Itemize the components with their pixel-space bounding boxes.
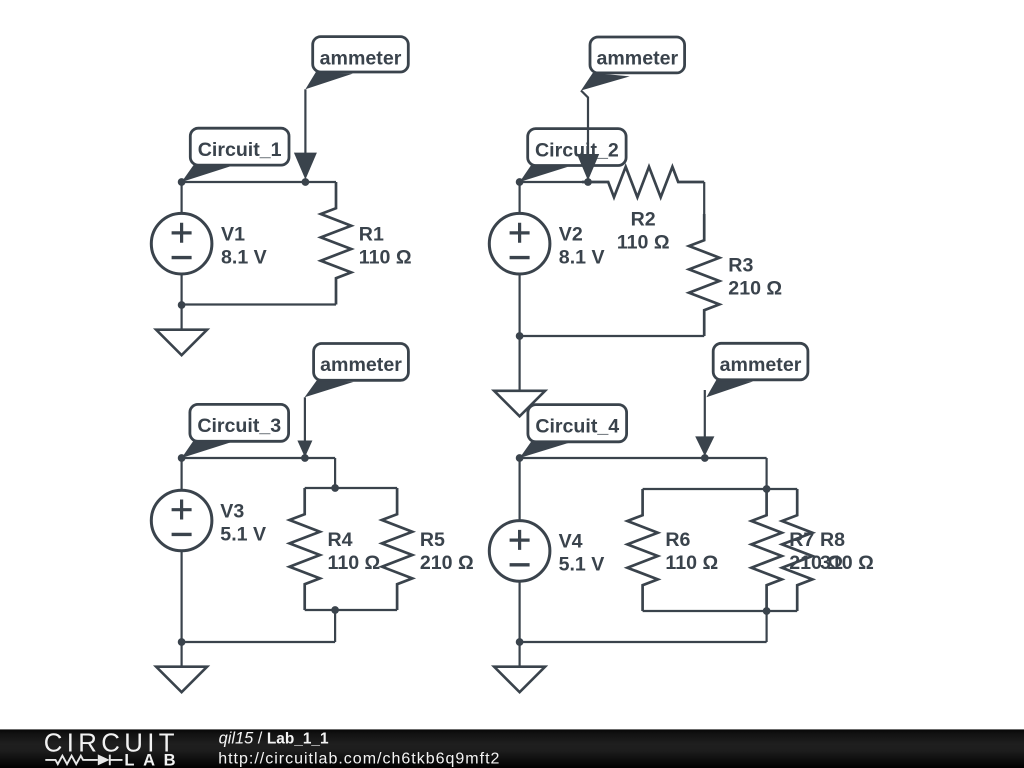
wire C3 bottom [182, 641, 336, 643]
svg-text:ammeter: ammeter [720, 354, 802, 376]
svg-text:ammeter: ammeter [320, 47, 402, 69]
node C2 top-left [516, 178, 524, 186]
CircuitLab logo resistor-diode glyph [45, 755, 122, 766]
svg-text:ammeter: ammeter [596, 48, 678, 70]
svg-text:210 Ω: 210 Ω [420, 552, 474, 574]
wire C2 left bottom lead [518, 274, 520, 336]
node C3 bottom-left [178, 638, 186, 646]
node C4 bottom-left [516, 638, 524, 646]
wire C2 top [520, 181, 582, 183]
wire C4 drop to parallel top bar [765, 458, 767, 489]
voltage source V2 [489, 213, 550, 274]
wire C3 parallel top bar [305, 487, 397, 489]
svg-text:R4: R4 [328, 529, 353, 551]
callout Circuit_2 [520, 129, 627, 182]
node C4 top-left [516, 454, 524, 462]
wire C1 top [182, 181, 336, 183]
wire C4 bottom [520, 641, 767, 643]
svg-text:R2: R2 [631, 209, 656, 231]
wire C4 left top lead [518, 458, 520, 521]
wire C4 top [520, 457, 767, 459]
svg-text:Circuit_3: Circuit_3 [197, 415, 281, 437]
wire C2 right top lead [703, 182, 705, 214]
svg-text:210 Ω: 210 Ω [728, 277, 782, 299]
svg-text:110 Ω: 110 Ω [328, 552, 381, 574]
node C1 bottom-left [178, 301, 186, 309]
resistor R3 [689, 214, 719, 336]
node A2 probe [584, 178, 592, 186]
node C3 top-left [178, 454, 186, 462]
svg-text:Circuit_2: Circuit_2 [535, 139, 619, 161]
svg-text:LAB: LAB [124, 752, 184, 768]
svg-text:V4: V4 [559, 531, 583, 553]
wire C3 left top lead [181, 458, 183, 490]
wire C1 left bottom lead [181, 274, 183, 305]
svg-text:5.1 V: 5.1 V [220, 523, 266, 545]
callout ammeter A3 [305, 344, 409, 398]
wire C4 parallel top bar [643, 488, 798, 490]
svg-text:R7: R7 [789, 529, 814, 551]
wire C2 left top lead [518, 182, 520, 213]
voltage source V1 [151, 213, 212, 274]
resistor R5 [382, 488, 412, 610]
wire C3 drop from parallel bottom bar [334, 610, 336, 642]
svg-text:110 Ω: 110 Ω [617, 232, 670, 254]
svg-text:R3: R3 [728, 254, 753, 276]
wire C1 left top lead [181, 182, 183, 213]
node C4 parallel bottom junction [763, 607, 771, 615]
callout Circuit_4 [520, 405, 627, 458]
svg-text:Circuit_4: Circuit_4 [535, 415, 619, 437]
svg-text:5.1 V: 5.1 V [559, 554, 605, 576]
ground C4 [494, 642, 545, 692]
resistor R8 [782, 489, 812, 611]
callout Circuit_3 [182, 404, 289, 458]
node A3 probe [301, 454, 309, 462]
svg-text:ammeter: ammeter [320, 354, 402, 376]
svg-text:R5: R5 [420, 529, 445, 551]
resistor R1 [321, 182, 351, 305]
ground C2 [494, 336, 545, 416]
ammeter A3 probe arrow [297, 397, 312, 457]
svg-text:110 Ω: 110 Ω [359, 246, 412, 268]
ammeter A4 probe arrow [695, 390, 714, 456]
node C1 top-left [178, 178, 186, 186]
svg-text:110 Ω: 110 Ω [665, 552, 718, 574]
svg-text:8.1 V: 8.1 V [559, 246, 605, 268]
svg-text:qil15 / Lab_1_1: qil15 / Lab_1_1 [219, 729, 329, 747]
ammeter A1 probe arrow [294, 89, 317, 179]
voltage source V3 [151, 490, 212, 551]
svg-text:8.1 V: 8.1 V [221, 246, 267, 268]
node A1 probe [302, 178, 310, 186]
wire C4 drop from parallel bottom bar [765, 611, 767, 642]
resistor R6 [627, 489, 657, 611]
callout ammeter A4 [706, 343, 808, 397]
svg-text:310 Ω: 310 Ω [820, 552, 874, 574]
callout Circuit_1 [182, 128, 289, 182]
svg-text:http://circuitlab.com/ch6tkb6q: http://circuitlab.com/ch6tkb6q9mft2 [218, 750, 500, 767]
wire C1 bottom [182, 303, 336, 305]
node C2 bottom-left [516, 332, 524, 340]
node C4 parallel top junction [763, 485, 771, 493]
svg-text:Circuit_1: Circuit_1 [198, 139, 282, 161]
node C3 parallel top junction [331, 484, 339, 492]
callout ammeter A2 [581, 37, 685, 91]
svg-text:V2: V2 [559, 223, 583, 245]
wire C3 top [182, 457, 336, 459]
svg-text:R1: R1 [359, 223, 384, 245]
wire C3 drop to parallel top bar [334, 458, 336, 488]
ammeter A2 probe arrow [577, 91, 599, 181]
svg-text:R8: R8 [820, 529, 845, 551]
ground C3 [156, 642, 207, 692]
svg-text:V1: V1 [221, 223, 245, 245]
wire C2 bottom [520, 335, 705, 337]
resistor R7 [751, 489, 781, 611]
ground C1 [156, 305, 207, 355]
wire C3 parallel bottom bar [305, 609, 397, 611]
wire C4 parallel bottom bar [643, 610, 798, 612]
wire C4 left bottom lead [518, 581, 520, 642]
svg-text:R6: R6 [665, 529, 690, 551]
node A4 probe [701, 454, 709, 462]
svg-text:V3: V3 [220, 500, 244, 522]
node C3 parallel bottom junction [331, 606, 339, 614]
resistor R4 [290, 488, 320, 610]
voltage source V4 [489, 521, 550, 582]
wire C3 left bottom lead [181, 551, 183, 642]
resistor R2 [582, 167, 704, 197]
callout ammeter A1 [305, 37, 408, 90]
